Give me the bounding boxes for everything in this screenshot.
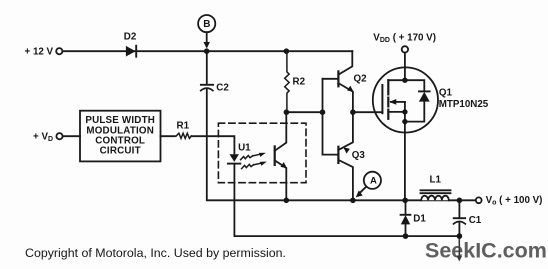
svg-text:R1: R1 [177, 120, 190, 131]
svg-text:B: B [203, 19, 210, 30]
svg-text:R2: R2 [293, 77, 306, 88]
svg-text:+ 12 V: + 12 V [25, 47, 54, 58]
svg-text:A: A [370, 176, 377, 187]
svg-text:Q2: Q2 [354, 73, 368, 84]
svg-text:Q3: Q3 [352, 150, 366, 161]
svg-text:D1: D1 [413, 214, 426, 225]
svg-text:D2: D2 [124, 31, 137, 42]
svg-text:MTP10N25: MTP10N25 [439, 99, 489, 110]
svg-text:Copyright of Motorola, Inc. Us: Copyright of Motorola, Inc. Used by perm… [25, 246, 286, 260]
svg-text:SeekIC.com: SeekIC.com [425, 239, 547, 263]
svg-text:L1: L1 [430, 175, 442, 186]
svg-text:CIRCUIT: CIRCUIT [100, 145, 141, 156]
svg-text:U1: U1 [238, 142, 251, 153]
svg-text:Q1: Q1 [439, 88, 453, 99]
svg-text:C2: C2 [216, 83, 229, 94]
svg-text:C1: C1 [469, 215, 482, 226]
